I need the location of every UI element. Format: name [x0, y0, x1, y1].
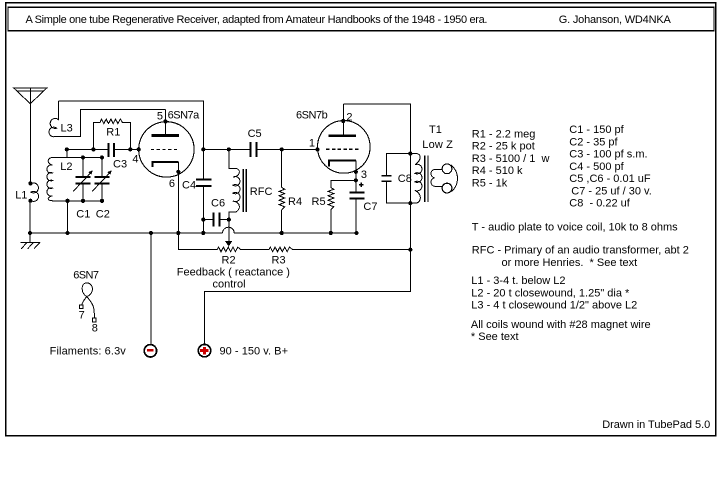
- coil L2: [47, 157, 53, 200]
- wire L3 top over tube to plate node: [59, 101, 204, 149]
- U1b grid (dashed): [326, 148, 359, 150]
- capacitor C8 across primary: [386, 154, 410, 203]
- wire tank bottom: [52, 200, 102, 202]
- capacitor C2 (variable): [101, 157, 103, 200]
- node C2 top: [100, 155, 104, 159]
- capacitor C7: [349, 193, 364, 199]
- node bus-L2: [65, 231, 69, 235]
- svg-text:2: 2: [346, 111, 352, 123]
- node T1 primary top: [408, 152, 412, 156]
- svg-text:R4 - 510 k: R4 - 510 k: [472, 165, 523, 177]
- T1 secondary: [431, 169, 442, 186]
- svg-text:L2: L2: [60, 161, 72, 173]
- svg-text:R1 - 2.2 meg: R1 - 2.2 meg: [472, 128, 536, 140]
- svg-text:L3: L3: [61, 122, 73, 134]
- node R3-B+: [408, 248, 412, 252]
- U1a plate lead pin 5: [164, 110, 166, 135]
- svg-text:G. Johanson, WD4NKA: G. Johanson, WD4NKA: [559, 14, 672, 26]
- label plus C7: [359, 182, 364, 187]
- T1 core lines: [425, 156, 428, 203]
- node T1 primary bottom: [408, 201, 412, 205]
- svg-text:RFC - Primary of an audio tran: RFC - Primary of an audio transformer, a…: [472, 245, 689, 257]
- U1b plate: [328, 134, 355, 137]
- coil L1: [31, 183, 39, 202]
- svg-text:8: 8: [92, 322, 98, 334]
- node bus-C4: [201, 231, 205, 235]
- svg-text:R3: R3: [272, 255, 286, 267]
- svg-text:Feedback ( reactance ): Feedback ( reactance ): [177, 266, 290, 278]
- node bus-C7: [354, 231, 358, 235]
- node C1 bottom: [81, 199, 85, 203]
- svg-text:R4: R4: [288, 196, 302, 208]
- svg-text:T - audio plate to voice coil,: T - audio plate to voice coil, 10k to 8 …: [472, 222, 678, 234]
- svg-text:C8 - 0.22 uf: C8 - 0.22 uf: [569, 198, 630, 210]
- svg-text:R2: R2: [222, 255, 236, 267]
- node bus-R4: [280, 231, 284, 235]
- wire cathode to R5: [331, 180, 356, 187]
- tube U1b 6SN7b envelope: [318, 121, 371, 174]
- U1b plate lead pin 2: [342, 104, 344, 134]
- node C6-RFC-wiper: [227, 218, 231, 222]
- node C1 top: [81, 155, 85, 159]
- title box: [8, 7, 714, 31]
- svg-text:6SN7b: 6SN7b: [296, 110, 328, 122]
- phones earpiece top: [442, 164, 452, 174]
- svg-text:C4: C4: [182, 179, 196, 191]
- svg-text:L1: L1: [15, 190, 27, 202]
- node bus-R5: [329, 231, 333, 235]
- inductor RFC: [229, 149, 240, 219]
- svg-text:4: 4: [132, 154, 138, 166]
- filament pin 7 terminal: [80, 305, 84, 309]
- antenna: [14, 88, 47, 104]
- node plate-L3-C4: [201, 147, 205, 151]
- ground bus: [30, 232, 357, 234]
- wire L1 to ground bus: [29, 201, 31, 233]
- wire B+ line down and to plus terminal: [205, 250, 411, 345]
- node R4 top: [280, 147, 284, 151]
- svg-text:3: 3: [361, 169, 367, 181]
- capacitor C5: [250, 142, 256, 157]
- wire R2 to R3: [241, 249, 269, 251]
- resistor R2: [217, 247, 241, 252]
- svg-text:L1 - 3-4 t. below L2: L1 - 3-4 t. below L2: [471, 275, 565, 287]
- svg-text:C3 - 100 pf s.m.: C3 - 100 pf s.m.: [569, 149, 647, 161]
- capacitor C6: [203, 219, 229, 221]
- svg-text:R3 - 5100 / 1 w: R3 - 5100 / 1 w: [472, 153, 550, 165]
- svg-text:R2 - 25 k pot: R2 - 25 k pot: [472, 141, 535, 153]
- node L2 bottom: [65, 199, 69, 203]
- resistor R3: [269, 247, 293, 252]
- tube U1a 6SN7a envelope: [139, 122, 194, 177]
- svg-text:6SN7: 6SN7: [73, 269, 99, 281]
- svg-text:R5: R5: [312, 196, 326, 208]
- wire L3 bottom to plate pin 5: [54, 110, 165, 137]
- U1a cathode: [153, 162, 179, 167]
- svg-text:C2 - 35 pf: C2 - 35 pf: [569, 137, 618, 149]
- minus terminal: [144, 345, 156, 357]
- capacitor C3: [108, 143, 114, 157]
- svg-text:C2: C2: [96, 209, 110, 221]
- wire bus to minus terminal: [150, 233, 152, 345]
- phones headband: [451, 165, 458, 192]
- wire link tank top to grid wire: [66, 149, 68, 157]
- wire cathode junction to R2: [178, 233, 217, 250]
- svg-text:C7 - 25 uf / 30 v.: C7 - 25 uf / 30 v.: [571, 186, 652, 198]
- wire C5 to pin 1: [257, 148, 317, 150]
- svg-text:Low Z: Low Z: [422, 139, 453, 151]
- svg-text:A Simple one tube Regenerative: A Simple one tube Regenerative Receiver,…: [26, 14, 488, 26]
- svg-text:C7: C7: [363, 201, 377, 213]
- svg-text:Filaments: 6.3v: Filaments: 6.3v: [50, 345, 127, 357]
- resistor R1: [93, 119, 130, 149]
- svg-text:T1: T1: [429, 124, 442, 136]
- node bus-cathode: [176, 231, 180, 235]
- node bus-minus: [149, 231, 153, 235]
- ground: [21, 233, 41, 249]
- node C2 bottom: [100, 199, 104, 203]
- node R1 left: [91, 147, 95, 151]
- coil L3: [49, 101, 58, 137]
- svg-text:C5: C5: [248, 128, 262, 140]
- svg-text:C1: C1: [76, 209, 90, 221]
- svg-text:7: 7: [79, 309, 85, 321]
- filament loop symbol: [82, 283, 95, 318]
- U1b cathode: [329, 161, 356, 167]
- wire R3 to B+ line: [293, 249, 410, 251]
- U1a cathode lead pin 6 to bus: [177, 162, 179, 233]
- svg-text:All coils wound with #28 magne: All coils wound with #28 magnet wire: [471, 319, 651, 331]
- plus terminal: [198, 344, 210, 356]
- svg-text:C1 - 150 pf: C1 - 150 pf: [569, 124, 624, 136]
- node bus-antenna: [28, 231, 32, 235]
- wire hop over wiper: [223, 227, 235, 233]
- svg-text:5: 5: [157, 111, 163, 123]
- wiper wire with arrow to R2: [228, 220, 230, 242]
- svg-text:R1: R1: [106, 127, 120, 139]
- svg-text:C6: C6: [211, 197, 225, 209]
- resistor R4: [281, 149, 283, 187]
- svg-text:RFC: RFC: [250, 186, 273, 198]
- svg-text:R5 - 1k: R5 - 1k: [472, 177, 508, 189]
- U1b cathode lead pin 3: [355, 161, 357, 193]
- svg-text:C8: C8: [398, 173, 412, 185]
- svg-text:* See text: * See text: [471, 331, 519, 343]
- svg-text:Drawn in TubePad 5.0: Drawn in TubePad 5.0: [602, 419, 710, 431]
- node grid-link: [65, 147, 69, 151]
- svg-text:or more Henries. * See text: or more Henries. * See text: [502, 257, 638, 269]
- svg-text:90 - 150 v. B+: 90 - 150 v. B+: [220, 346, 289, 358]
- wire antenna to L1: [29, 104, 31, 184]
- capacitor C1 (variable): [82, 157, 84, 200]
- wire plate node to C5: [203, 148, 250, 150]
- node C6 left: [201, 218, 205, 222]
- node R1 right: [128, 147, 132, 151]
- svg-text:L2 - 20 t closewound, 1.25" di: L2 - 20 t closewound, 1.25" dia *: [471, 287, 630, 299]
- svg-text:control: control: [213, 278, 246, 290]
- filament pin 8 terminal: [93, 318, 97, 322]
- svg-text:6SN7a: 6SN7a: [168, 110, 201, 122]
- phones earpiece bottom: [442, 183, 452, 193]
- capacitor C4: [202, 149, 204, 233]
- svg-text:L3 - 4 t closewound 1/2" above: L3 - 4 t closewound 1/2" above L2: [471, 300, 637, 312]
- node pin 4: [137, 147, 141, 151]
- node pin 1: [315, 147, 319, 151]
- U1a plate: [152, 134, 180, 137]
- svg-text:6: 6: [169, 178, 175, 190]
- transformer T1 primary: [410, 154, 422, 204]
- wire L2 bottom to bus: [67, 201, 69, 233]
- node RFC top: [227, 147, 231, 151]
- grid wire to C3: [67, 148, 139, 150]
- wire L2 top to C2 top: [52, 156, 102, 158]
- svg-text:C4 - 500 pf: C4 - 500 pf: [569, 161, 624, 173]
- svg-text:C3: C3: [113, 159, 127, 171]
- resistor R5: [328, 188, 334, 210]
- svg-text:1: 1: [309, 138, 315, 150]
- wire pin 2 to T1: [343, 104, 410, 250]
- U1a grid (dashed): [151, 148, 179, 150]
- RFC core lines: [243, 169, 246, 212]
- svg-text:C5 ,C6 - 0.01 uF: C5 ,C6 - 0.01 uF: [569, 173, 651, 185]
